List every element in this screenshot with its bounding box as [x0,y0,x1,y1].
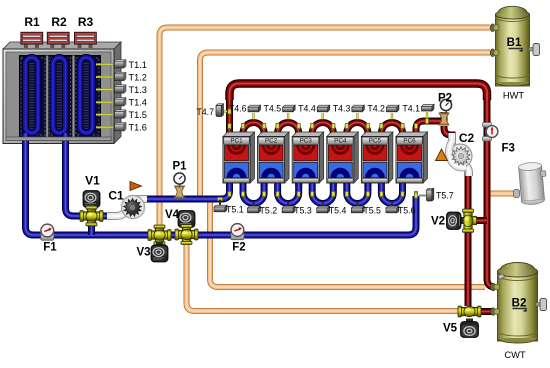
pump C1 outlet casing pipe [133,199,147,200]
svg-text:V3: V3 [136,247,150,259]
svg-text:T5.2: T5.2 [260,206,278,216]
orange pipe: B1 top supply loop to valve V3 [160,28,491,236]
svg-text:T1.1: T1.1 [129,60,147,70]
pump C1 [122,196,145,219]
heating element R3 [78,44,82,48]
svg-text:C1: C1 [108,189,124,203]
blue U pipe PC4 to PC5 [347,182,368,204]
coil outlet stub left [22,133,29,144]
svg-text:R3: R3 [78,15,94,29]
svg-text:V2: V2 [431,216,445,228]
heating element R1 [24,44,28,48]
sensor T4.4 [322,113,324,120]
heating element R2 [50,44,54,48]
sensor T4.7 [222,110,227,112]
pump C2 run indicator triangle [436,149,448,161]
valve V1 [83,191,100,208]
heat pump unit PC5 [361,132,393,183]
exchanger cells with fins [21,57,100,136]
svg-text:PC5: PC5 [369,138,382,145]
svg-text:PC1: PC1 [230,138,243,145]
B1 side fitting [529,44,540,56]
sensor T5.4 [322,203,324,209]
svg-text:T5.6: T5.6 [398,206,416,216]
blue pipe: valve V1 branch down [88,216,95,235]
tank B1 (hot water tank) [496,6,530,86]
svg-text:T5.5: T5.5 [363,206,381,216]
blue pipe: lower return line from exchanger through F1 V3 V4 F2 to PC6 [26,141,417,235]
svg-text:V5: V5 [443,323,458,335]
yellow sensor capillary lines [96,64,115,127]
svg-text:T4.2: T4.2 [367,104,385,114]
red arch pipe PC3 to PC4 [312,122,333,137]
gauge P1 [175,186,185,198]
cell dividers [46,56,48,138]
blue U pipe PC1 to PC2 [243,182,264,204]
dark red main hot manifold [230,84,488,101]
svg-text:C2: C2 [459,131,475,145]
svg-text:T5.3: T5.3 [294,206,312,216]
red arch pipe PC2 to PC3 [278,122,299,137]
exchanger coil rings [26,58,93,134]
sensor T4.1 [426,112,428,118]
sensor T5.1 [219,200,221,208]
B2 nozzle lower [491,308,500,316]
svg-text:CWT: CWT [504,350,525,360]
B1 nozzle bottom [490,49,499,57]
flow meter F1 [41,224,54,240]
svg-text:T4.6: T4.6 [229,104,247,114]
heat pump unit PC6 [396,132,428,183]
svg-text:V4: V4 [165,209,180,221]
svg-text:P2: P2 [438,93,452,105]
red pipe: manifold drop through F3 to tank B2 upper port [487,97,495,287]
svg-text:R1: R1 [24,15,40,29]
heat exchanger interior [20,56,101,138]
red arch pipe PC5 to PC6 [381,122,402,137]
sensor T5.3 [287,203,289,209]
B2 level bar [513,309,527,311]
sensor T5.7 [419,195,426,197]
sensor T4.2 [391,113,393,120]
blue pipe: exchanger outlet to valve V1 and pump C1 [66,141,111,216]
valve V2 [459,217,465,224]
blue U pipe PC5 to PC6 [381,182,402,204]
B2 nozzle upper [491,283,500,291]
box bottom frame edge [6,137,111,141]
gauge P2 [439,113,449,125]
orange pipe: down from blue line to tank B2 upper port [210,199,485,287]
expansion vessel [518,161,548,205]
B2 top-left pin [498,274,505,280]
svg-text:T5.1: T5.1 [226,205,244,215]
svg-text:T5.7: T5.7 [436,191,454,201]
pump C2 outlet casing pipe [462,163,469,176]
svg-text:HWT: HWT [503,91,524,101]
svg-text:P1: P1 [172,161,187,173]
flow meter F2 [231,224,244,240]
blue U pipe PC3 to PC4 [312,182,333,204]
B1 nozzle top [490,24,499,32]
coil outlet stub right [62,133,69,144]
sensor T4.3 [356,113,358,120]
red pipe: valve V5 to tank B2 lower port [468,308,492,315]
svg-text:T1.6: T1.6 [129,123,147,133]
orange pipe: valve V4 down to valve V5 [187,240,461,311]
svg-text:F1: F1 [43,242,57,254]
heat pump unit PC2 [258,132,290,183]
svg-text:PC6: PC6 [403,138,416,145]
svg-text:F2: F2 [232,242,245,254]
svg-text:T4.7: T4.7 [196,107,214,117]
red branch pipe V2 to main drop [468,217,487,224]
red pipe: P2 fitting down to pump C2 inlet [444,126,452,141]
svg-text:B2: B2 [512,298,527,310]
tank B2 (cold water tank) [498,263,538,344]
heat exchanger box right face [114,42,121,144]
blue pipe: pump C1 outlet line to PC1 inlet [146,180,230,199]
svg-text:T4.4: T4.4 [298,104,316,114]
yellow pipe couplings [217,109,428,201]
pump C1 run indicator triangle [130,182,142,191]
svg-text:PC4: PC4 [334,138,347,145]
svg-text:T1.5: T1.5 [129,110,147,120]
svg-text:R2: R2 [51,15,67,29]
sensor T4.6 [252,113,254,120]
red pipe: manifold drop to PC1 inlet [226,97,233,135]
sensor T5.5 [356,203,358,209]
red arch pipe PC1 to PC2 [243,122,264,137]
svg-text:T1.2: T1.2 [129,72,147,82]
valve V5 actuator [461,322,479,338]
svg-text:T1.4: T1.4 [129,98,147,108]
heat pump unit PC4 [327,132,359,183]
flow meter F3 [483,123,498,142]
vessel nozzle cap [514,190,520,198]
valve V5 [458,306,481,317]
B2 side fitting [536,299,547,311]
T1 sensor pockets [115,60,127,131]
heat pump unit PC3 [292,132,324,183]
svg-text:T4.5: T4.5 [264,104,282,114]
pump C2 [448,141,472,168]
sensor T4.5 [287,113,289,120]
sensor T5.6 [391,203,393,209]
red pipe: PC6 outlet up to gauge P2 fitting [416,112,444,137]
orange pipe: B1 bottom return loop [200,53,490,200]
valve V2 actuator [447,212,462,230]
svg-text:B1: B1 [507,37,522,49]
sensor T5.2 [253,203,255,209]
svg-text:T1.3: T1.3 [129,85,147,95]
valve V3 [148,225,171,245]
svg-text:T4.3: T4.3 [333,104,351,114]
red pipe: pump C2 outlet down through valve V2 to valve V5 [465,168,472,306]
valve V4 [178,211,195,228]
blue U pipe PC2 to PC3 [278,182,299,204]
svg-text:T4.1: T4.1 [402,104,420,114]
red arch pipe PC4 to PC5 [347,122,368,137]
svg-text:PC2: PC2 [265,138,278,145]
svg-text:T5.4: T5.4 [329,206,347,216]
pump C2 inlet casing pipe [452,133,456,161]
heat pump unit PC1 [223,132,255,183]
svg-text:F3: F3 [502,143,515,155]
orange stub pipe to expansion vessel [488,191,517,197]
heat exchanger box top face [3,42,121,49]
svg-text:V1: V1 [85,174,100,188]
heat exchanger box front face [3,49,114,144]
svg-text:PC3: PC3 [300,138,313,145]
B1 level bar [509,49,523,51]
pump C1 inlet casing pipe [107,210,126,216]
